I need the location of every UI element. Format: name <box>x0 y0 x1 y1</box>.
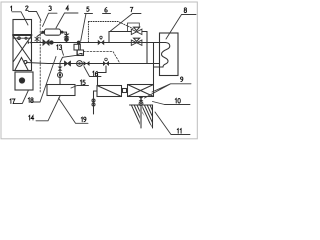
small valve on branch <box>58 67 63 71</box>
valve on lower main right of pump <box>84 61 90 66</box>
spray header line <box>13 34 32 36</box>
label 11 <box>177 129 178 134</box>
leader 15 <box>71 86 89 89</box>
pipe coil exit to drop <box>154 66 160 68</box>
tower sump tank <box>15 72 33 90</box>
bypass branch riser from main <box>109 32 131 43</box>
meter circle on drop <box>65 38 69 42</box>
dashed control line top <box>88 22 133 29</box>
expansion tank 13 <box>74 44 80 50</box>
wellhead valve <box>139 97 144 101</box>
leader 11 <box>155 112 190 135</box>
leader 8 <box>166 15 196 40</box>
leader 9 <box>145 84 192 98</box>
leader 3 <box>43 13 58 26</box>
dashed sensor line tower <box>39 21 41 92</box>
spray nozzle left <box>18 37 21 40</box>
number labels (vector digits) <box>10 6 187 133</box>
leader 19 <box>59 98 89 123</box>
leader 17 <box>13 90 29 104</box>
leader 16 <box>84 67 101 77</box>
step pipe from motor valve down to left chiller <box>98 66 107 86</box>
leader lines <box>12 12 196 135</box>
float valve circle <box>24 61 27 64</box>
leader 13 <box>62 50 64 55</box>
motor valve on upper main <box>98 40 104 45</box>
junction dot <box>77 41 81 45</box>
label 9 <box>181 77 183 82</box>
basin funnel <box>15 58 28 71</box>
leader 1 <box>12 12 28 25</box>
pipe from valve 7a to bypass drop <box>142 32 147 64</box>
makeup branch down to tank 14 <box>59 64 61 85</box>
dashed control line mid <box>84 52 121 64</box>
meter on branch <box>58 73 63 78</box>
valve on upper main <box>43 40 49 45</box>
dashed control drop <box>87 22 89 43</box>
chiller right <box>128 85 154 97</box>
label 3 <box>49 6 52 11</box>
leader 5 <box>81 14 93 42</box>
drop to right chiller <box>153 43 155 85</box>
label 2 <box>26 6 29 10</box>
leader 18 <box>31 57 57 103</box>
valve on lower main left <box>65 61 71 66</box>
leader 7 <box>111 14 142 32</box>
ground hatch right <box>142 105 152 128</box>
riser to pump suction <box>37 32 43 42</box>
label 6 <box>105 8 107 13</box>
label 7 <box>130 7 133 12</box>
drain valve circles <box>92 99 95 102</box>
lower main pipe <box>27 63 160 64</box>
fill X right diagonal <box>13 36 31 61</box>
nozzle header line <box>14 37 32 39</box>
label 15 <box>80 80 81 85</box>
label 19 <box>81 117 82 122</box>
sump pump circle <box>19 78 24 83</box>
leader 10 <box>153 102 191 105</box>
pump 3 discharge port <box>61 31 64 34</box>
label 14 <box>29 115 30 120</box>
label 18 <box>28 98 29 103</box>
controller box below junction <box>78 43 80 51</box>
fill X left diagonal <box>13 36 31 61</box>
label 16 <box>93 71 94 76</box>
page frame <box>1 2 197 139</box>
tank 6 <box>160 33 179 76</box>
chiller left inlet stub <box>94 91 98 114</box>
small valve on riser <box>35 37 39 41</box>
junction circle <box>50 41 53 44</box>
wellhead meter <box>139 102 143 106</box>
spray nozzle right <box>25 37 27 39</box>
control valve 7a body <box>131 29 142 34</box>
chiller left <box>97 86 122 97</box>
label 10 <box>175 98 176 103</box>
control valve 7b actuator <box>134 38 140 41</box>
pump 3 body <box>45 29 61 35</box>
pump 3 suction port <box>41 31 44 34</box>
actuator linkage bar <box>128 23 140 32</box>
control valve 7b body <box>131 40 142 45</box>
label 4 <box>66 6 69 10</box>
control valve 7a actuator <box>134 27 140 30</box>
leader 4 <box>56 13 78 28</box>
well pipe <box>140 97 142 129</box>
label 8 <box>184 8 186 13</box>
label 5 <box>87 7 89 11</box>
label 1 <box>11 6 12 11</box>
motor valve on lower main <box>103 61 109 66</box>
coil inside tank 6 <box>160 43 170 68</box>
connector between chillers <box>122 90 128 92</box>
leader 2 <box>29 12 42 21</box>
leader 6 <box>103 13 111 15</box>
pump circle lower main <box>77 61 83 67</box>
valve on drop <box>64 34 69 37</box>
leader 14 <box>36 96 60 121</box>
label 13 <box>57 45 58 50</box>
label 17 <box>10 99 11 104</box>
discharge drop pipe <box>62 32 67 42</box>
upper main pipe <box>32 42 160 44</box>
cooling tower 1 shell <box>13 20 32 71</box>
ground hatch left <box>130 104 140 106</box>
water tank 14 <box>47 85 75 96</box>
tower outlet stub valve <box>28 41 32 44</box>
